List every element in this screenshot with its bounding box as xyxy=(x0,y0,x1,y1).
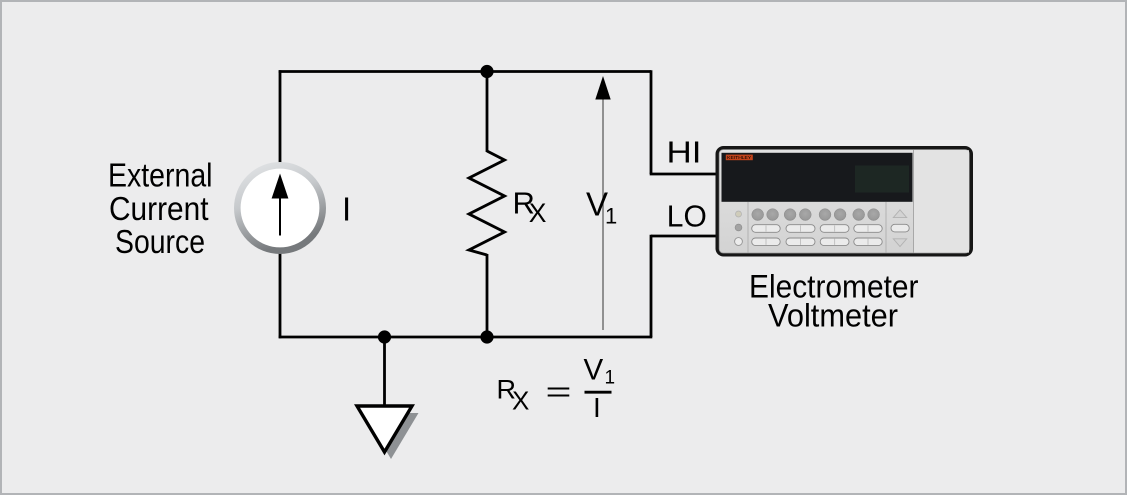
instrument panel divider lines xyxy=(747,202,749,253)
instrument knob buttons row xyxy=(752,209,880,221)
V1 measurement arrow xyxy=(595,76,610,330)
wire: current source top lead xyxy=(279,70,282,163)
instrument display window xyxy=(722,153,913,202)
junction node: ground-stem on bottom net xyxy=(378,330,391,343)
svg-text:KEITHLEY: KEITHLEY xyxy=(727,155,751,160)
instrument key row 1 xyxy=(752,225,883,233)
electrometer voltmeter instrument body xyxy=(716,146,974,257)
junction node A (top) xyxy=(480,65,493,78)
instrument right blank panel xyxy=(914,150,969,252)
svg-text:1: 1 xyxy=(605,204,617,229)
label V1 (measured voltage) xyxy=(586,186,617,229)
label External Current Source xyxy=(108,156,213,260)
junction node: resistor bottom on bottom net xyxy=(480,330,493,343)
wire: bottom horizontal (ground net) xyxy=(279,336,653,339)
svg-text:1: 1 xyxy=(605,367,616,388)
instrument left indicator buttons xyxy=(735,211,743,245)
wire: current source bottom lead xyxy=(279,253,282,338)
svg-text:HI: HI xyxy=(667,136,702,170)
wire: ground stem xyxy=(383,337,386,407)
instrument up button xyxy=(893,210,906,218)
svg-text:Voltmeter: Voltmeter xyxy=(768,298,898,334)
instrument range key xyxy=(891,224,909,232)
svg-text:LO: LO xyxy=(667,200,707,234)
wire: resistor top lead xyxy=(486,72,489,153)
instrument KEITHLEY badge xyxy=(726,155,753,161)
svg-text:X: X xyxy=(512,386,529,416)
svg-text:I: I xyxy=(593,392,601,423)
wire: LO vertical drop to bottom net xyxy=(650,235,653,337)
instrument key row 2 xyxy=(752,238,883,246)
svg-text:Current: Current xyxy=(109,190,209,227)
label RX (resistor) xyxy=(513,185,547,228)
instrument down button xyxy=(893,239,906,247)
instrument key dividers xyxy=(766,225,868,245)
current source circle (External Current Source) xyxy=(237,165,322,250)
svg-text:V: V xyxy=(584,353,604,386)
formula RX = V1 / I xyxy=(497,353,616,422)
wire: top horizontal (node A net) xyxy=(279,70,651,73)
wire: resistor bottom lead xyxy=(486,254,489,337)
svg-text:X: X xyxy=(529,198,547,228)
svg-text:External: External xyxy=(108,156,213,193)
resistor RX zigzag xyxy=(469,151,505,255)
ground symbol xyxy=(357,406,412,452)
svg-text:I: I xyxy=(342,190,351,227)
wire: right vertical drop to HI xyxy=(650,70,653,174)
current source arrow xyxy=(272,174,289,236)
label Electrometer Voltmeter xyxy=(749,269,919,334)
svg-text:Source: Source xyxy=(115,223,205,260)
wire: LO lead from voltmeter xyxy=(651,235,716,238)
formula fraction bar xyxy=(585,391,612,394)
wire: HI lead into voltmeter xyxy=(650,173,716,176)
svg-text:=: = xyxy=(546,376,572,407)
ground symbol shadow xyxy=(364,413,419,459)
